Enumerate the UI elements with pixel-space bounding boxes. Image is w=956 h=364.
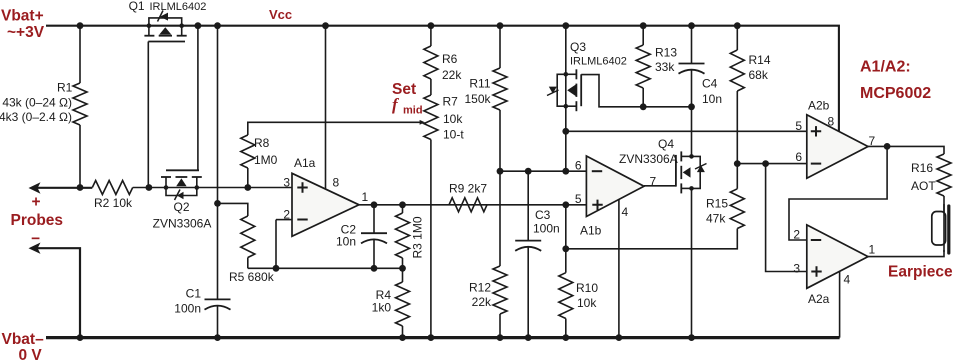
resistor R11 <box>493 68 507 110</box>
pin 2 of A2a <box>793 228 800 242</box>
op-amp A2a <box>807 225 868 288</box>
transistor Q4 gate plate <box>675 155 677 187</box>
svg-text:R6: R6 <box>442 52 458 66</box>
label C2 <box>341 223 357 237</box>
svg-text:43k (0–24 Ω): 43k (0–24 Ω) <box>2 96 72 110</box>
svg-text:R9 2k7: R9 2k7 <box>449 181 487 195</box>
wire R1 bottom lead <box>79 125 81 188</box>
resistor R15 <box>730 189 744 229</box>
op-amp A1b <box>586 156 644 217</box>
junction output / R10 riser <box>562 201 569 208</box>
wire R4 bottom lead <box>402 326 404 338</box>
svg-text:68k: 68k <box>749 68 769 82</box>
wire pin5 riser to R10 <box>565 205 567 273</box>
resistor R10 <box>559 273 573 319</box>
svg-text:22k: 22k <box>472 295 492 309</box>
junction probe+ / R1 <box>77 184 84 191</box>
label C1 value <box>174 302 201 316</box>
svg-text:3: 3 <box>283 176 290 190</box>
label A1b <box>580 224 602 238</box>
transistor Q4 body diode mark <box>695 164 707 173</box>
net label MCP6002 <box>860 85 931 102</box>
junction C4 / gate node <box>688 103 695 110</box>
svg-text:4k3 (0–2.4 Ω): 4k3 (0–2.4 Ω) <box>0 110 72 124</box>
wire R2 to Q2 node <box>133 187 292 189</box>
svg-text:R10: R10 <box>576 281 598 295</box>
junction C3 / 0V rail <box>525 334 532 341</box>
label Q1 <box>129 0 145 13</box>
wire R15 top lead <box>736 164 738 189</box>
junction pin6 / C3 <box>525 168 532 175</box>
svg-text:ZVN3306A: ZVN3306A <box>619 152 678 166</box>
junction C1 / 0V rail <box>214 334 221 341</box>
junction R4 / 0V rail <box>399 334 406 341</box>
label R1 value 43k <box>2 96 72 110</box>
net label A1/A2: <box>860 59 911 76</box>
transistor Q3 IRLML6402 body <box>557 69 576 111</box>
wire R3 top lead <box>402 205 404 213</box>
resistor R6 <box>424 46 438 79</box>
svg-text:A2a: A2a <box>808 292 830 306</box>
label Q3 <box>570 40 586 54</box>
svg-text:1M0: 1M0 <box>254 153 278 167</box>
svg-text:C1: C1 <box>186 287 202 301</box>
label A1a <box>294 156 316 170</box>
pin 7 of A2b <box>869 134 876 148</box>
transistor Q3 gate plate <box>580 74 582 106</box>
junction pin3 node / R8 <box>244 184 251 191</box>
svg-text:10k: 10k <box>443 112 463 126</box>
resistor R2 <box>92 181 132 195</box>
label R16 value AOT <box>911 179 936 193</box>
pin 6 of A1b <box>575 159 582 173</box>
label A2a <box>808 292 830 306</box>
svg-text:R14: R14 <box>749 53 771 67</box>
label R12 value <box>472 295 492 309</box>
wire R14 node to A2b pin6 <box>737 163 807 165</box>
svg-text:Vbat+: Vbat+ <box>1 8 44 25</box>
transistor Q1 body diode mark <box>158 11 169 22</box>
label R10 <box>576 281 598 295</box>
svg-text:6: 6 <box>795 150 802 164</box>
wiper arrowhead at R7 <box>420 120 425 125</box>
svg-text:Q2: Q2 <box>173 200 189 214</box>
svg-text:5: 5 <box>795 119 802 133</box>
junction Q1 drain on rail <box>179 23 184 28</box>
label C3 value <box>533 222 560 236</box>
svg-text:A1b: A1b <box>580 224 602 238</box>
wire Q3 gate to R13/C4 node <box>581 75 643 107</box>
junction feedback / C2 <box>371 265 378 272</box>
transistor Q2 ZVN3306A body <box>161 177 202 196</box>
svg-text:IRLML6402: IRLML6402 <box>150 1 207 13</box>
resistor R1 <box>73 83 87 125</box>
wire A1a pin 8 supply <box>325 26 327 190</box>
pin 8 of A1a <box>333 176 340 190</box>
junction output / C2 <box>371 201 378 208</box>
label R8 <box>254 136 270 150</box>
svg-text:1: 1 <box>869 243 876 257</box>
pin 4 of A2a <box>844 273 851 287</box>
capacitor C4 <box>679 64 705 74</box>
junction Q4 / 0V rail <box>688 334 695 341</box>
net label 0 V <box>19 347 43 364</box>
transistor Q3 body diode mark <box>547 87 559 96</box>
svg-text:3: 3 <box>793 262 800 276</box>
transistor Q1 IRLML6402 body <box>144 18 186 36</box>
pin 1 of A2a <box>869 243 876 257</box>
resistor R14 <box>730 50 744 91</box>
label R7 <box>443 95 459 109</box>
svg-text:4: 4 <box>844 273 851 287</box>
junction pin6 / R11-R12 tap <box>497 168 504 175</box>
svg-text:MCP6002: MCP6002 <box>860 85 931 102</box>
net label ~+3V <box>7 24 45 41</box>
junction riser / R15 return wire <box>562 245 569 252</box>
junction C1 column / R5 branch <box>214 200 221 207</box>
wire R12 bottom lead <box>499 314 501 338</box>
wire A2a pin4 to 0V rail <box>839 271 841 337</box>
svg-text:100n: 100n <box>533 222 560 236</box>
wire R13-C4 link <box>643 106 691 108</box>
svg-text:mid: mid <box>403 105 423 117</box>
wire A1a pin2 input <box>276 219 292 221</box>
label R8 value <box>254 153 278 167</box>
svg-text:10n: 10n <box>702 92 722 106</box>
wire C1 to 0V <box>217 305 219 338</box>
svg-text:R15: R15 <box>706 197 728 211</box>
svg-text:33k: 33k <box>655 60 675 74</box>
earpiece symbol <box>932 204 949 253</box>
pin 3 of A2a <box>793 262 800 276</box>
label R5 value <box>229 270 275 284</box>
svg-text:0 V: 0 V <box>19 347 43 364</box>
label R11 value <box>464 92 491 106</box>
wire A1a output to A1b pin5 <box>359 204 586 206</box>
label Probes <box>11 212 64 229</box>
label R9 value <box>449 181 487 195</box>
wire A2b output to R16 <box>868 146 944 154</box>
svg-text:Q3: Q3 <box>570 40 586 54</box>
label Q1 part IRLML6402 <box>150 1 207 13</box>
transistor Q2 body diode mark <box>175 190 184 201</box>
pin 3 of A1a <box>283 176 290 190</box>
junction feedback / pin2 riser <box>273 265 280 272</box>
svg-text:R13: R13 <box>655 46 677 60</box>
junction A2b output / feedback <box>884 143 891 150</box>
wire Q4 drain up to C4 node <box>691 107 693 157</box>
probe + sign <box>32 194 41 211</box>
resistor R3 <box>396 213 410 258</box>
trimmer R7 <box>424 95 438 140</box>
wire C3 top lead <box>527 171 529 240</box>
pin 5 of A1b <box>575 192 582 206</box>
svg-text:R3 1M0: R3 1M0 <box>411 216 425 258</box>
label R13 <box>655 46 677 60</box>
svg-text:R7: R7 <box>443 95 459 109</box>
svg-text:Earpiece: Earpiece <box>888 264 953 281</box>
svg-text:A1/A2:: A1/A2: <box>860 59 911 76</box>
resistor R8 <box>241 135 255 168</box>
wire R5 top branch <box>218 203 248 216</box>
svg-text:10-t: 10-t <box>443 128 464 142</box>
svg-text:R1: R1 <box>57 81 73 95</box>
wire R6-R7 link <box>430 79 432 95</box>
label R7 turns <box>443 128 464 142</box>
wire R3 bottom lead <box>402 258 404 268</box>
resistor R12 <box>493 266 507 314</box>
junction top rail / R13 <box>640 22 647 29</box>
label C4 value <box>702 92 722 106</box>
probe - sign <box>31 231 40 248</box>
junction top rail / A1a pin8 <box>322 22 329 29</box>
label R11 <box>469 77 490 91</box>
junction output / R3 <box>399 201 406 208</box>
svg-text:6: 6 <box>575 159 582 173</box>
svg-text:10k: 10k <box>577 296 597 310</box>
wire Q3 drain node to A2b pin5 <box>566 130 807 132</box>
wire C4 top lead <box>691 26 693 64</box>
junction top rail / R6 <box>428 22 435 29</box>
capacitor C1 <box>205 299 231 309</box>
label R12 <box>469 281 491 295</box>
svg-text:R8: R8 <box>254 136 270 150</box>
resistor R16 <box>937 154 951 196</box>
pin 7 of A1b <box>650 175 657 189</box>
wire R7 bottom to 0V <box>430 140 432 338</box>
svg-text:8: 8 <box>333 176 340 190</box>
svg-text:ZVN3306A: ZVN3306A <box>153 217 212 231</box>
wire R11 top lead <box>499 26 501 68</box>
svg-text:Vcc: Vcc <box>269 7 292 22</box>
resistor R4 <box>396 282 410 326</box>
wire feedback node (R5/C2/R3/R4) <box>248 267 403 269</box>
wire C4 bottom lead <box>691 69 693 107</box>
transistor Q1 gate plate <box>148 41 185 43</box>
label Q2 part ZVN3306A <box>153 217 212 231</box>
op-amp A2b <box>807 115 868 178</box>
wire R7 wiper to R8 top <box>248 122 421 135</box>
wire R1 top lead <box>79 26 81 83</box>
wire Vcc down to R5 tap and C1 <box>217 26 219 300</box>
pin 8 of A2b <box>828 115 835 129</box>
wire A1b pin7 to Q4 gate <box>644 185 676 187</box>
wire R14 top lead <box>736 26 738 50</box>
junction pin6 / Q3 drain <box>562 168 569 175</box>
junction R10 / 0V rail <box>562 334 569 341</box>
svg-text:C3: C3 <box>535 208 551 222</box>
wire R14 bottom lead <box>736 91 738 164</box>
op-amp A1a <box>292 173 359 236</box>
svg-text:R12: R12 <box>469 281 491 295</box>
junction Q2 source bridge <box>164 185 169 190</box>
wire R13 bottom lead <box>642 88 644 107</box>
label R1 <box>57 81 73 95</box>
wire R11 to R12 <box>499 110 501 266</box>
net label Earpiece <box>888 264 953 281</box>
junction Q4 bridge bottom <box>689 186 694 191</box>
wire C2 bottom lead <box>373 239 375 268</box>
svg-text:1k0: 1k0 <box>372 301 392 315</box>
junction Q3 drain / A2b pin5 wire <box>562 128 569 135</box>
wire R13 top lead <box>642 26 644 45</box>
junction R14 / R15 / pin6 wire <box>734 160 741 167</box>
label Q4 <box>658 137 674 151</box>
label Q4 part ZVN3306A <box>619 152 678 166</box>
resistor R5 <box>241 216 255 258</box>
wire Vcc top rail (Vbat+ to A2b pin 8) <box>46 26 839 132</box>
svg-text:Q1: Q1 <box>129 0 145 13</box>
svg-text:22k: 22k <box>442 68 462 82</box>
junction R7 / 0V rail <box>428 334 435 341</box>
junction pin6 wire / A2a pin3 riser <box>762 160 769 167</box>
svg-text:A1a: A1a <box>294 156 316 170</box>
label R14 <box>749 53 771 67</box>
svg-text:+: + <box>32 194 41 211</box>
junction Q3 bridge top <box>564 72 569 77</box>
resistor R13 <box>636 45 650 88</box>
label R4 <box>376 288 392 302</box>
label R2 value <box>94 196 133 210</box>
label R6 value <box>442 68 462 82</box>
wire A2a output to earpiece <box>868 250 944 257</box>
svg-text:100n: 100n <box>174 302 201 316</box>
junction A1b pin4 / 0V rail <box>616 334 623 341</box>
resistor R9 <box>449 198 487 212</box>
label R3 value (rotated) <box>411 216 425 258</box>
wire R5 bottom lead <box>247 258 249 269</box>
junction R2 / Q1 gate / Q2 drain <box>146 184 153 191</box>
svg-text:150k: 150k <box>464 92 491 106</box>
wire Q2 gate to Vcc <box>197 26 199 171</box>
svg-text:AOT: AOT <box>911 179 936 193</box>
wire R10 bottom lead <box>565 319 567 338</box>
wire C3 bottom lead <box>527 246 529 337</box>
label A2b <box>808 99 830 113</box>
svg-text:2: 2 <box>793 228 800 242</box>
pin 5 of A2b <box>795 119 802 133</box>
junction top rail / Q3 <box>562 22 569 29</box>
junction Q4 bridge top <box>689 154 694 159</box>
wire R8 bottom lead <box>247 168 249 188</box>
wire R15 bottom return <box>566 229 738 249</box>
pin 2 of A1a <box>283 208 290 222</box>
capacitor C3 <box>515 241 541 251</box>
svg-text:Q4: Q4 <box>658 137 674 151</box>
junction top rail / C4 <box>688 22 695 29</box>
pin 1 of A1a <box>362 190 369 204</box>
svg-text:Probes: Probes <box>11 212 64 229</box>
label R6 <box>442 52 458 66</box>
svg-text:4: 4 <box>622 205 629 219</box>
label C3 <box>535 208 551 222</box>
svg-text:−: − <box>31 231 40 248</box>
junction R12 / 0V rail <box>497 334 504 341</box>
svg-text:Vbat–: Vbat– <box>2 331 45 348</box>
wire Q3 source lead <box>565 26 567 75</box>
probe- arrow <box>29 243 41 254</box>
junction Q3 bridge bottom <box>564 104 569 109</box>
wire A1b pin6 node <box>500 170 586 172</box>
label R10 value <box>577 296 597 310</box>
wire C2 top lead <box>373 205 375 233</box>
transistor Q4 ZVN3306A body <box>681 151 700 193</box>
pin 6 of A2b <box>795 150 802 164</box>
wire A1b pin4 to 0V <box>618 199 620 337</box>
wire probe- to 0V rail <box>37 248 80 337</box>
net label Set <box>392 81 416 98</box>
wire R6 top lead <box>430 26 432 46</box>
label R16 <box>911 161 933 175</box>
svg-text:A2b: A2b <box>808 99 830 113</box>
svg-text:1: 1 <box>362 190 369 204</box>
capacitor C2 <box>361 233 387 243</box>
svg-text:R16: R16 <box>911 161 933 175</box>
wire A1a pin2 riser <box>275 220 277 269</box>
svg-text:C4: C4 <box>702 77 718 91</box>
label R13 value <box>655 60 675 74</box>
wire 0V bottom rail (Vbat- to A2a pin 4) <box>46 336 840 339</box>
wire A2a pin3 riser <box>766 164 807 272</box>
net label f_mid <box>392 95 423 117</box>
svg-text:R5 680k: R5 680k <box>229 270 275 284</box>
svg-text:10n: 10n <box>336 235 356 249</box>
wire R4 top lead <box>402 268 404 282</box>
label Q2 <box>173 200 189 214</box>
probe+ arrow <box>29 182 41 193</box>
label C2 value <box>336 235 356 249</box>
junction top rail / R11 <box>497 22 504 29</box>
transistor Q2 gate plate <box>166 169 199 171</box>
wire Q4 source to 0V <box>691 188 693 337</box>
label R1 value 4k3 <box>0 110 72 124</box>
junction Q1 source on rail <box>147 23 152 28</box>
junction top rail / R14 <box>734 22 741 29</box>
label C4 <box>702 77 718 91</box>
wire R16 to earpiece <box>943 196 945 212</box>
svg-text:R11: R11 <box>469 77 490 91</box>
wire Q3 drain down <box>565 106 567 171</box>
svg-text:R2 10k: R2 10k <box>94 196 133 210</box>
svg-text:2: 2 <box>283 208 290 222</box>
junction Q2 drain bridge <box>195 185 200 190</box>
wire probe+ (arrow to R2) <box>37 187 92 189</box>
label Q3 part IRLML6402 <box>570 56 627 68</box>
junction feedback / R3 / R4 <box>399 265 406 272</box>
wire Q1 gate to probe+ node <box>147 42 149 188</box>
junction R13 / gate node <box>640 103 647 110</box>
label R15 <box>706 197 728 211</box>
junction top rail / Q2 gate <box>195 22 202 29</box>
junction top rail / C1 column <box>214 22 221 29</box>
label R15 value <box>706 212 726 226</box>
svg-text:IRLML6402: IRLML6402 <box>570 56 627 68</box>
label R14 value <box>749 68 769 82</box>
label R4 value <box>372 301 392 315</box>
svg-text:~+3V: ~+3V <box>7 24 45 41</box>
svg-text:5: 5 <box>575 192 582 206</box>
net label Vcc <box>269 7 292 22</box>
wire feedback A2b out to A2a pin2 <box>789 146 887 240</box>
junction top rail / R1 <box>77 22 84 29</box>
junction probe- / 0V rail <box>77 334 84 341</box>
label R7 value <box>443 112 463 126</box>
label C1 <box>186 287 202 301</box>
net label Vbat+ <box>1 8 44 25</box>
svg-text:8: 8 <box>828 115 835 129</box>
pin 4 of A1b <box>622 205 629 219</box>
svg-text:47k: 47k <box>706 212 726 226</box>
